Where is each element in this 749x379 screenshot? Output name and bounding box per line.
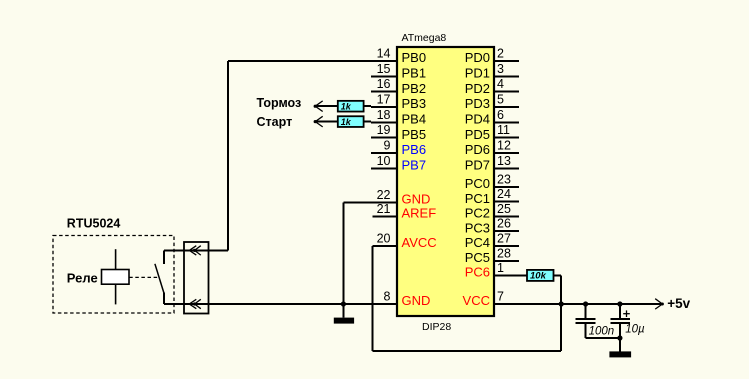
- svg-text:VCC: VCC: [463, 293, 490, 308]
- svg-text:20: 20: [377, 232, 391, 246]
- svg-text:PD3: PD3: [465, 96, 490, 111]
- svg-text:PB2: PB2: [402, 81, 427, 96]
- svg-text:12: 12: [497, 139, 511, 153]
- svg-text:AREF: AREF: [402, 206, 437, 221]
- svg-text:Тормоз: Тормоз: [257, 96, 302, 110]
- svg-text:1: 1: [497, 261, 504, 275]
- svg-text:18: 18: [377, 108, 391, 122]
- svg-text:PB5: PB5: [402, 127, 427, 142]
- svg-text:PD6: PD6: [465, 142, 490, 157]
- svg-text:ATmega8: ATmega8: [402, 32, 447, 44]
- svg-text:PB7: PB7: [402, 158, 427, 173]
- svg-text:Реле: Реле: [67, 271, 98, 286]
- svg-text:GND: GND: [402, 192, 431, 207]
- svg-text:PC2: PC2: [465, 206, 490, 221]
- svg-text:+5v: +5v: [667, 296, 690, 311]
- svg-text:PB3: PB3: [402, 96, 427, 111]
- svg-text:PC5: PC5: [465, 250, 490, 265]
- svg-text:9: 9: [384, 139, 391, 153]
- svg-text:RTU5024: RTU5024: [67, 217, 121, 231]
- svg-text:28: 28: [497, 246, 511, 260]
- svg-text:4: 4: [497, 77, 504, 91]
- svg-text:26: 26: [497, 217, 511, 231]
- svg-text:13: 13: [497, 154, 511, 168]
- svg-text:14: 14: [377, 47, 391, 61]
- svg-text:27: 27: [497, 232, 511, 246]
- svg-text:7: 7: [497, 290, 504, 304]
- svg-text:PC4: PC4: [465, 235, 490, 250]
- svg-text:PD0: PD0: [465, 50, 490, 65]
- svg-text:21: 21: [377, 202, 391, 216]
- svg-text:PB4: PB4: [402, 112, 427, 127]
- svg-text:AVCC: AVCC: [402, 235, 437, 250]
- svg-text:PC3: PC3: [465, 220, 490, 235]
- svg-text:19: 19: [377, 123, 391, 137]
- svg-text:Старт: Старт: [257, 115, 293, 129]
- svg-text:PC0: PC0: [465, 176, 490, 191]
- svg-text:10: 10: [377, 154, 391, 168]
- svg-text:100n: 100n: [589, 326, 615, 338]
- svg-text:PB1: PB1: [402, 66, 427, 81]
- svg-text:PD2: PD2: [465, 81, 490, 96]
- svg-text:PB6: PB6: [402, 142, 427, 157]
- svg-text:24: 24: [497, 187, 511, 201]
- svg-text:GND: GND: [402, 293, 431, 308]
- svg-text:25: 25: [497, 202, 511, 216]
- svg-text:2: 2: [497, 47, 504, 61]
- svg-text:23: 23: [497, 172, 511, 186]
- svg-text:DIP28: DIP28: [422, 321, 451, 333]
- svg-text:5: 5: [497, 93, 504, 107]
- svg-text:15: 15: [377, 62, 391, 76]
- svg-text:16: 16: [377, 77, 391, 91]
- svg-text:1k: 1k: [341, 101, 352, 111]
- svg-text:PC6: PC6: [465, 265, 490, 280]
- svg-text:PD7: PD7: [465, 158, 490, 173]
- svg-text:PC1: PC1: [465, 191, 490, 206]
- svg-text:PD5: PD5: [465, 127, 490, 142]
- svg-text:10µ: 10µ: [625, 324, 645, 336]
- svg-text:6: 6: [497, 108, 504, 122]
- svg-text:17: 17: [377, 93, 391, 107]
- svg-text:PB0: PB0: [402, 50, 427, 65]
- svg-text:PD1: PD1: [465, 66, 490, 81]
- svg-text:8: 8: [384, 290, 391, 304]
- svg-text:10k: 10k: [530, 271, 547, 282]
- svg-text:11: 11: [497, 123, 510, 137]
- svg-text:3: 3: [497, 62, 504, 76]
- svg-text:22: 22: [377, 188, 391, 202]
- svg-text:PD4: PD4: [465, 112, 490, 127]
- svg-text:1k: 1k: [341, 117, 352, 127]
